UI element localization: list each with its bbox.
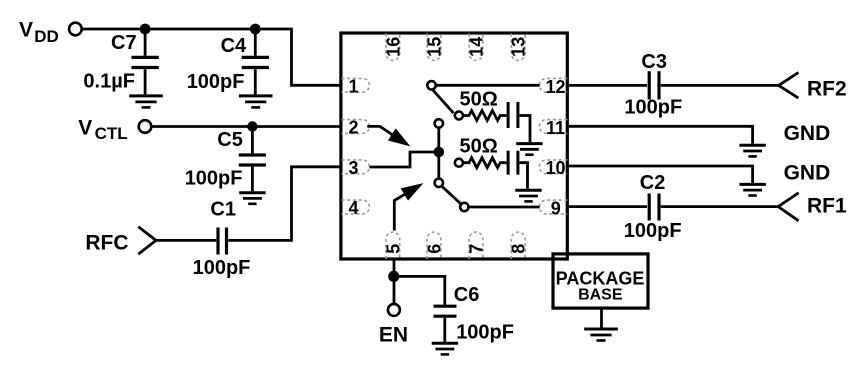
svg-text:100pF: 100pF — [187, 71, 245, 93]
pin 5 pad — [383, 232, 403, 259]
svg-text:GND: GND — [784, 122, 831, 145]
svg-text:C3: C3 — [641, 51, 667, 73]
wire RFC to C1 — [156, 239, 216, 242]
terminal RF2 chevron — [779, 73, 799, 99]
svg-text:100pF: 100pF — [624, 96, 682, 118]
svg-text:DD: DD — [34, 27, 59, 46]
node common lower contact — [435, 179, 443, 187]
svg-text:50Ω: 50Ω — [460, 136, 498, 158]
arrow control from pin 5 — [394, 184, 422, 231]
node common upper contact — [435, 119, 443, 127]
IC body U1 — [341, 33, 567, 259]
svg-text:C1: C1 — [210, 199, 236, 221]
wire common vertical — [437, 128, 440, 179]
junction C5 — [247, 121, 257, 131]
svg-text:PACKAGE: PACKAGE — [556, 268, 645, 288]
terminal VCTL — [139, 120, 152, 133]
svg-text:10: 10 — [545, 158, 565, 178]
node RF1 contact — [460, 203, 468, 211]
capacitor C3 — [624, 51, 682, 119]
svg-text:100pF: 100pF — [456, 321, 514, 343]
pin 13 pad — [509, 34, 529, 61]
svg-text:3: 3 — [348, 158, 358, 178]
svg-text:C6: C6 — [454, 284, 480, 306]
transistor Q1 shunt FET — [508, 102, 530, 142]
svg-text:13: 13 — [509, 37, 529, 57]
node VCTL label — [78, 116, 127, 143]
capacitor C5 — [185, 127, 266, 192]
terminal RF1 chevron — [778, 193, 798, 221]
svg-text:BASE: BASE — [578, 287, 623, 304]
pin 10 pad — [539, 158, 567, 178]
resistor R term2 50ohm — [455, 136, 507, 168]
junction EN — [388, 271, 399, 282]
terminal VDD — [69, 23, 82, 36]
pin 4 pad — [342, 198, 370, 218]
svg-text:100pF: 100pF — [185, 168, 243, 190]
svg-text:16: 16 — [383, 37, 403, 57]
svg-text:C5: C5 — [217, 129, 243, 151]
svg-text:1: 1 — [348, 77, 358, 97]
ground C5 — [239, 193, 265, 204]
pin 6 pad — [425, 232, 445, 259]
svg-text:0.1µF: 0.1µF — [83, 71, 135, 93]
ground Q1 — [516, 144, 542, 155]
junction C7 — [140, 24, 151, 35]
svg-text:8: 8 — [509, 244, 529, 254]
pin 11 pad — [539, 118, 567, 138]
svg-text:C2: C2 — [640, 172, 666, 194]
svg-text:100pF: 100pF — [193, 257, 251, 279]
terminal RFC chevron — [138, 227, 156, 255]
svg-text:15: 15 — [425, 37, 445, 57]
svg-text:RF1: RF1 — [807, 194, 847, 217]
arrow control from pin 2 — [367, 126, 409, 145]
transistor Q2 shunt FET — [508, 151, 527, 189]
pin 14 pad — [467, 34, 487, 61]
wire pin 11 to ground — [569, 126, 753, 144]
ground pin 10 — [739, 184, 765, 195]
pin 2 pad — [342, 118, 370, 138]
wire C1 to pin 3 — [228, 167, 340, 241]
junction common pole — [434, 147, 445, 158]
svg-text:RF2: RF2 — [807, 77, 847, 100]
wire VCTL to pin 2 — [152, 125, 341, 128]
wire package base to ground — [600, 308, 603, 327]
wire pin 3 to common pole — [370, 152, 434, 167]
pin 15 pad — [425, 34, 445, 61]
svg-text:4: 4 — [348, 198, 358, 218]
svg-text:V: V — [78, 116, 92, 139]
switch blade common to RF1 — [442, 186, 461, 204]
wire pin 10 to ground — [569, 166, 753, 183]
pin 7 pad — [467, 232, 487, 259]
pin 1 pad — [342, 77, 370, 97]
wire pin 5 to EN — [393, 261, 396, 305]
capacitor C4 — [187, 29, 269, 94]
pin 9 pad — [539, 199, 567, 219]
ground pin 11 — [739, 145, 765, 156]
pin 3 pad — [342, 158, 370, 178]
wire VDD to pin 1 — [82, 29, 340, 85]
ground Q2 — [515, 190, 541, 201]
wire C3 to RF2 — [661, 84, 779, 87]
resistor R term1 50ohm — [455, 88, 507, 120]
svg-text:7: 7 — [467, 244, 487, 254]
svg-text:5: 5 — [383, 244, 403, 254]
wire pin 12 to C3 — [569, 84, 647, 87]
svg-text:CTL: CTL — [95, 124, 128, 143]
ground C7 — [129, 96, 163, 108]
package base box — [553, 254, 648, 308]
terminal EN — [388, 304, 400, 316]
svg-text:12: 12 — [545, 77, 565, 97]
pin 16 pad — [383, 34, 403, 61]
node RF2 contact — [427, 81, 435, 89]
wire pin 9 to C2 — [569, 205, 647, 208]
ground package base — [584, 329, 618, 341]
svg-text:11: 11 — [546, 118, 565, 138]
svg-text:6: 6 — [425, 244, 445, 254]
svg-text:14: 14 — [467, 37, 487, 57]
svg-text:C4: C4 — [221, 35, 247, 57]
svg-text:RFC: RFC — [85, 232, 128, 255]
svg-text:9: 9 — [551, 199, 561, 219]
svg-text:C7: C7 — [111, 32, 137, 54]
wire junction to C6 — [394, 276, 445, 304]
svg-text:GND: GND — [784, 161, 831, 184]
junction C4 — [250, 24, 261, 35]
ground C6 — [432, 343, 458, 354]
svg-text:2: 2 — [348, 118, 358, 138]
switch blade RF2 to termination — [433, 90, 454, 113]
ground C4 — [239, 96, 273, 108]
capacitor C2 — [624, 172, 682, 242]
pin 8 pad — [509, 232, 529, 259]
wire RF1 contact to pin 9 — [469, 206, 540, 209]
wire switch contact to pin 12 — [436, 84, 540, 87]
svg-text:50Ω: 50Ω — [460, 88, 498, 110]
capacitor C7 — [83, 29, 158, 94]
svg-text:EN: EN — [379, 324, 408, 347]
svg-text:100pF: 100pF — [624, 220, 682, 242]
capacitor C6 — [434, 284, 515, 343]
node VDD label — [19, 19, 59, 46]
pin 12 pad — [539, 77, 567, 97]
svg-text:V: V — [19, 19, 33, 42]
capacitor C1 — [193, 199, 251, 279]
wire C2 to RF1 — [661, 205, 779, 208]
